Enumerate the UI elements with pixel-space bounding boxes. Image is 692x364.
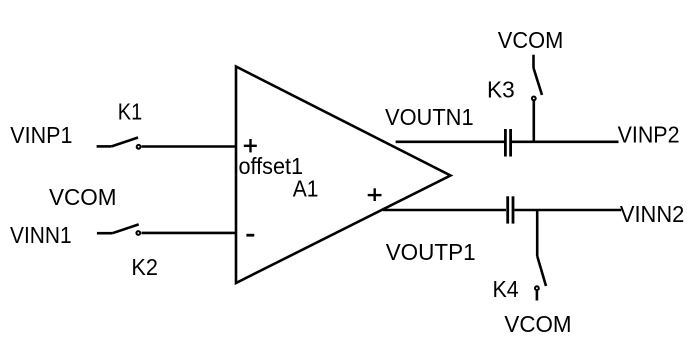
switch K3 [532,55,542,101]
svg-text:VCOM: VCOM [49,184,117,210]
svg-text:VCOM: VCOM [498,27,564,53]
op-amp A1 [236,67,451,284]
svg-text:VCOM: VCOM [504,311,571,337]
switch K1 [97,138,141,149]
wire cap to VINP2 [512,141,619,144]
switch K2 [97,224,140,235]
svg-text:VINN1: VINN1 [10,222,72,248]
wire VOUTN1 [396,141,505,144]
minus sign (inverting input) [246,234,254,237]
capacitor (bottom) [508,196,513,223]
svg-text:K2: K2 [131,254,158,280]
svg-text:K4: K4 [493,276,519,302]
wire K1 to op-amp [142,145,237,148]
wire cap to VINN2 [514,209,621,212]
switch K4 [535,256,546,301]
plus sign (output side) [368,188,382,201]
plus sign (offset input) [244,139,257,152]
svg-text:VOUTN1: VOUTN1 [385,104,474,130]
svg-text:VINP1: VINP1 [10,122,72,148]
svg-text:K1: K1 [118,98,142,124]
svg-text:K3: K3 [487,76,515,102]
svg-text:VINN2: VINN2 [620,201,684,227]
wire K3 to output node [532,101,535,143]
wire VOUTP1 [383,209,506,212]
svg-text:VINP2: VINP2 [618,122,680,148]
wire K2 to op-amp [142,232,238,235]
svg-text:VOUTP1: VOUTP1 [386,239,476,265]
svg-text:A1: A1 [293,176,319,202]
capacitor (top) [505,129,510,157]
wire output node to K4 [536,210,539,256]
